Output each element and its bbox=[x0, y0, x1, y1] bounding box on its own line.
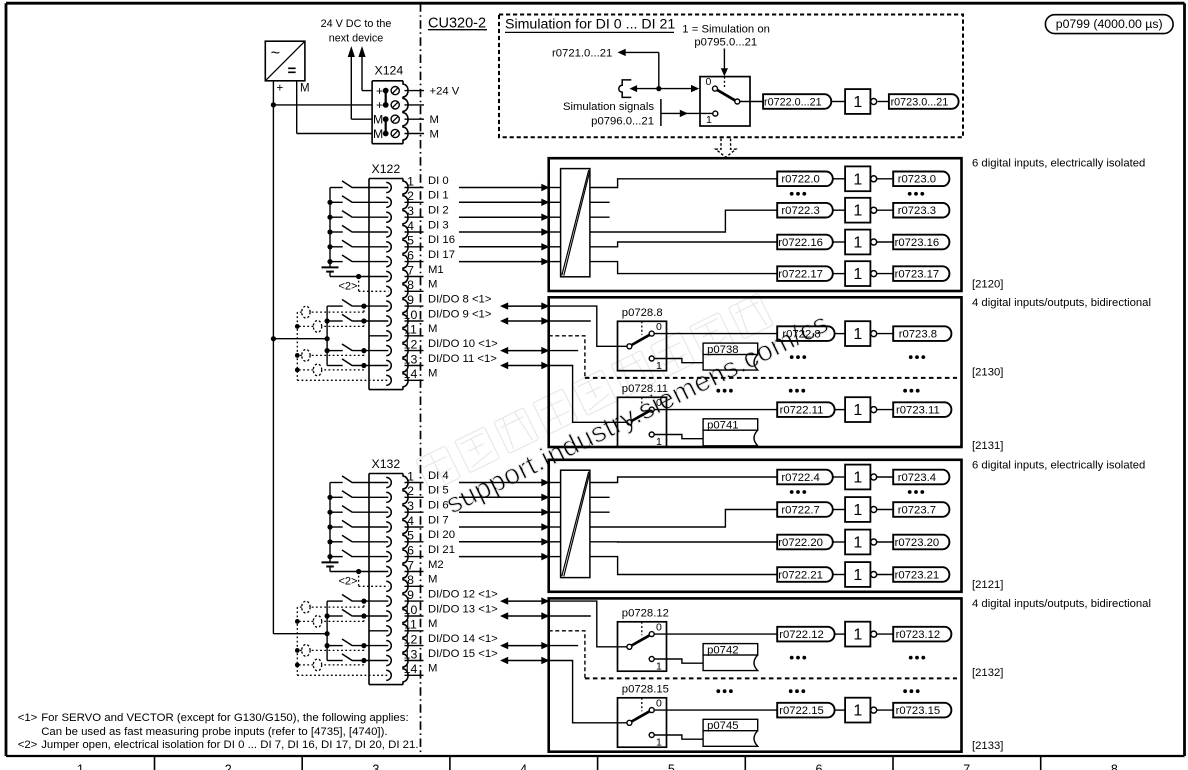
parameter box p0745 bbox=[703, 719, 758, 746]
label X122 pin 3 DI 2 bbox=[428, 205, 449, 217]
selector switch p0728.15 bbox=[618, 698, 667, 749]
wire B1 out6 bbox=[590, 262, 778, 274]
inverter gate p0728.8 bbox=[845, 321, 877, 346]
simulation selector switch p0795 bbox=[700, 76, 750, 126]
svg-text:1: 1 bbox=[853, 535, 862, 552]
wire B3 input 1 inside bbox=[549, 496, 561, 498]
wire gate to r0723.21 bbox=[877, 574, 894, 576]
svg-text:DI 4: DI 4 bbox=[428, 470, 449, 482]
svg-text:=: = bbox=[288, 63, 297, 80]
inverter gate B1 row1 bbox=[845, 198, 877, 223]
svg-text:p0796.0...21: p0796.0...21 bbox=[591, 116, 654, 128]
svg-text:r0722.3: r0722.3 bbox=[781, 205, 819, 217]
label X132 pin 3 DI 6 bbox=[428, 500, 449, 512]
svg-text:1: 1 bbox=[853, 266, 862, 283]
svg-text:1: 1 bbox=[853, 402, 862, 419]
power supply AC/DC converter bbox=[265, 41, 305, 81]
svg-text:7: 7 bbox=[963, 763, 970, 770]
ellipsis B4 row1 bbox=[790, 656, 925, 660]
wire r0722.16 to gate bbox=[833, 241, 845, 243]
X132 pin 3 contact and number bbox=[386, 499, 423, 517]
galvanic isolation barrier B3 bbox=[561, 470, 590, 577]
svg-text:1: 1 bbox=[853, 502, 862, 519]
wire r0722.8 to gate bbox=[835, 333, 846, 335]
svg-text:DI 5: DI 5 bbox=[428, 485, 449, 497]
wire X132 DI/DO pin12 bidirectional bbox=[500, 642, 550, 649]
label X122 pin 10 DI/DO 9 <1> bbox=[428, 308, 492, 320]
BICO output r0722.17 bbox=[777, 266, 833, 281]
wire gate to r0723.8 bbox=[877, 333, 894, 335]
label p0796.0...21 bbox=[591, 116, 654, 128]
junction X122 M1 node bbox=[356, 274, 361, 279]
svg-text:r0722.15: r0722.15 bbox=[779, 705, 824, 717]
X122 pin 12 contact and number bbox=[386, 337, 423, 355]
label X132 pin 8 M bbox=[428, 574, 437, 586]
svg-text:14: 14 bbox=[404, 367, 418, 381]
parameter pill p0799 (4000.00 us) bbox=[1045, 15, 1173, 34]
X132 pin 12 contact and number bbox=[386, 632, 423, 650]
wire B1 out1 bbox=[590, 179, 778, 188]
wire X132 DI pin3 to block bbox=[459, 509, 550, 516]
svg-text:r0722.0...21: r0722.0...21 bbox=[764, 96, 822, 108]
wire p0728.11 contact0 out bbox=[654, 409, 777, 411]
svg-text:DI 16: DI 16 bbox=[428, 234, 455, 246]
label X124 bbox=[375, 64, 404, 78]
wire X132 DI pin5 to block bbox=[459, 538, 550, 545]
wire p0728.11 contact1 out bbox=[654, 435, 703, 439]
svg-text:6 digital inputs, electrically: 6 digital inputs, electrically isolated bbox=[972, 158, 1145, 170]
X122 pin 9 contact and number bbox=[386, 293, 423, 311]
wire p0728.15 contact1 out bbox=[654, 735, 703, 739]
footnote <2> bbox=[18, 739, 419, 751]
label X122 pin 1 DI 0 bbox=[428, 175, 449, 187]
X124 pin 1 external line bbox=[405, 90, 425, 92]
svg-text:5: 5 bbox=[407, 234, 414, 248]
svg-text:[2131]: [2131] bbox=[972, 440, 1003, 452]
ellipsis B3 bbox=[790, 490, 924, 494]
svg-text:1: 1 bbox=[656, 360, 662, 372]
BICO output r0722.16 bbox=[777, 235, 833, 250]
footnote <1> bbox=[18, 712, 409, 738]
BICO output r0722.0...21 bbox=[763, 94, 831, 109]
svg-text:X122: X122 bbox=[372, 162, 401, 176]
indicator lamp X122 L1 bbox=[297, 306, 364, 318]
svg-text:6: 6 bbox=[407, 543, 414, 557]
svg-text:r0723.3: r0723.3 bbox=[898, 205, 936, 217]
wire B1 out2 stub bbox=[590, 201, 610, 203]
label X122 pin 9 DI/DO 8 <1> bbox=[428, 293, 492, 305]
label X122 pin 14 M bbox=[428, 368, 437, 380]
X124 pin 3 external line bbox=[405, 118, 425, 120]
BICO output r0723.21 bbox=[893, 567, 949, 582]
svg-text:10: 10 bbox=[404, 603, 418, 617]
switch contact X132 DI/DO d bbox=[327, 654, 388, 663]
svg-text:1: 1 bbox=[853, 326, 862, 343]
wire +24V rail feed bbox=[273, 104, 372, 106]
wire gate to r0723.3 bbox=[877, 209, 894, 211]
decorative watermark bbox=[416, 293, 834, 519]
svg-text:11: 11 bbox=[404, 323, 417, 337]
wire p0728.15 contact0 out bbox=[654, 709, 777, 711]
wire X122 DI pin6 to block bbox=[459, 258, 550, 265]
switch contact X132 pin5 bbox=[327, 535, 388, 544]
switch contact X122 DI/DO a bbox=[327, 300, 388, 309]
svg-text:M: M bbox=[430, 114, 439, 126]
switch contact X122 pin6 bbox=[327, 255, 388, 264]
X124 pin 2 external line bbox=[405, 104, 425, 106]
BICO output r0722.11 bbox=[777, 402, 834, 417]
label r0721.0...21 bbox=[552, 47, 612, 59]
svg-text:13: 13 bbox=[404, 647, 418, 661]
wire gate to r0723.7 bbox=[877, 509, 894, 511]
BICO output r0722.4 bbox=[777, 470, 833, 485]
X132 pin 1 contact and number bbox=[386, 469, 423, 487]
simulation dashed box bbox=[499, 15, 963, 138]
wire B4 in pin12 stub bbox=[549, 645, 579, 647]
svg-text:p0742: p0742 bbox=[707, 644, 738, 656]
label +24 V bbox=[430, 86, 460, 98]
wire B4 in pin13 bbox=[549, 661, 627, 723]
ellipsis B2 row1 bbox=[790, 355, 925, 359]
wire X132 switch rail bbox=[329, 483, 331, 563]
X122 pin 7 contact and number bbox=[386, 263, 423, 281]
svg-text:5: 5 bbox=[407, 529, 414, 543]
wire X132 DI/DO pin10 bidirectional bbox=[500, 612, 550, 619]
inverter gate B1 row3 bbox=[845, 261, 877, 286]
svg-text:p0799 (4000.00 µs): p0799 (4000.00 µs) bbox=[1056, 17, 1163, 31]
svg-text:CU320-2: CU320-2 bbox=[428, 15, 486, 31]
svg-text:9: 9 bbox=[407, 588, 414, 602]
parameter box p0738 bbox=[703, 343, 758, 370]
diagram ref 2133 bbox=[972, 740, 1003, 752]
BICO output r0723.3 bbox=[893, 203, 949, 218]
svg-text:For SERVO and VECTOR (except f: For SERVO and VECTOR (except for G130/G1… bbox=[41, 712, 408, 724]
wire B3 out5 bbox=[590, 541, 778, 543]
svg-text:1: 1 bbox=[706, 114, 712, 126]
svg-text:0: 0 bbox=[656, 622, 662, 634]
label <2> X132 bbox=[339, 576, 358, 588]
galvanic isolation barrier B1 bbox=[561, 169, 590, 277]
parameter box p0741 bbox=[703, 419, 758, 446]
svg-text:DI/DO 8 <1>: DI/DO 8 <1> bbox=[428, 293, 492, 305]
wire B4 separator dotted bbox=[585, 677, 957, 679]
X124 jumper link pins 3-4 bbox=[385, 119, 387, 133]
label X122 pin 12 DI/DO 10 <1> bbox=[428, 338, 498, 350]
BICO output r0722.7 bbox=[777, 502, 833, 517]
switch contact X122 pin2 bbox=[327, 196, 388, 205]
wire r0722.3 to gate bbox=[833, 209, 845, 211]
X132 pin 8 contact and number bbox=[386, 573, 423, 591]
wire X122 DI pin5 to block bbox=[459, 243, 550, 250]
BICO output r0723.12 bbox=[893, 627, 951, 642]
svg-text:r0723.15: r0723.15 bbox=[896, 705, 941, 717]
X122 pin 5 contact and number bbox=[386, 234, 423, 252]
svg-text:r0722.11: r0722.11 bbox=[780, 405, 824, 417]
wire r0722.20 to gate bbox=[833, 541, 845, 543]
label X132 pin 13 DI/DO 15 <1> bbox=[428, 648, 498, 660]
wire B1 input 0 inside bbox=[549, 187, 561, 189]
svg-text:1: 1 bbox=[77, 763, 84, 770]
wire X122 DI/DO pin10 bidirectional bbox=[500, 317, 550, 324]
svg-text:1: 1 bbox=[853, 235, 862, 252]
BICO output r0722.21 bbox=[777, 567, 833, 582]
X124 terminal M pin 3 with screw bbox=[373, 113, 399, 127]
inverter gate B1 row0 bbox=[845, 166, 877, 191]
BICO output r0722.3 bbox=[777, 203, 833, 218]
wire X132 DI/DO pin9 bidirectional bbox=[500, 597, 550, 604]
wire B1 out3 stub bbox=[590, 216, 610, 218]
diagram ref 2120 bbox=[972, 278, 1003, 290]
X132 pin 5 contact and number bbox=[386, 529, 423, 547]
svg-text:p0795.0...21: p0795.0...21 bbox=[694, 37, 757, 49]
wire B1 input 1 inside bbox=[549, 201, 561, 203]
svg-text:r0722.16: r0722.16 bbox=[778, 237, 823, 249]
svg-text:r0723.20: r0723.20 bbox=[895, 537, 940, 549]
block B2 frame bbox=[549, 297, 962, 447]
wire B4 M dashed bbox=[549, 631, 585, 679]
junction X122 rail nodes bbox=[325, 318, 330, 353]
wire X132 pin11 M stub bbox=[369, 630, 388, 632]
svg-text:DI 17: DI 17 bbox=[428, 249, 455, 261]
wire B1 out4 bbox=[590, 210, 778, 232]
svg-text:10: 10 bbox=[404, 308, 418, 322]
svg-text:p0728.12: p0728.12 bbox=[622, 608, 669, 620]
switch contact X132 DI/DO c bbox=[327, 639, 388, 648]
svg-text:3: 3 bbox=[407, 499, 414, 513]
label X122 pin 11 M bbox=[428, 323, 437, 335]
svg-text:DI/DO 12 <1>: DI/DO 12 <1> bbox=[428, 588, 498, 600]
svg-text:DI/DO 13 <1>: DI/DO 13 <1> bbox=[428, 603, 498, 615]
wire X122 DI/DO pin13 bidirectional bbox=[500, 362, 550, 369]
switch contact X132 pin4 bbox=[327, 520, 388, 529]
svg-text:3: 3 bbox=[407, 204, 414, 218]
switch contact X122 DI/DO c bbox=[327, 344, 388, 353]
svg-text:6: 6 bbox=[816, 763, 823, 770]
BICO output r0722.12 bbox=[777, 627, 834, 642]
label 1 = Simulation on bbox=[682, 23, 770, 35]
wire gate to r0723.20 bbox=[877, 541, 894, 543]
svg-text:M: M bbox=[428, 663, 437, 675]
simulation signals source bar bbox=[660, 99, 662, 126]
wire M lead bbox=[297, 81, 372, 134]
svg-text:DI/DO 11 <1>: DI/DO 11 <1> bbox=[428, 353, 497, 365]
wire B2 in pin12 stub bbox=[549, 350, 579, 352]
wire gate to r0723.0 bbox=[877, 178, 894, 180]
svg-text:Jumper open, electrical isolat: Jumper open, electrical isolation for DI… bbox=[41, 739, 418, 751]
svg-text:1: 1 bbox=[656, 660, 662, 672]
label X132 pin 4 DI 7 bbox=[428, 514, 449, 526]
svg-text:0: 0 bbox=[656, 698, 662, 710]
svg-text:M: M bbox=[428, 618, 437, 630]
svg-text:+: + bbox=[376, 98, 383, 112]
label X132 bbox=[372, 457, 401, 471]
svg-text:24 V DC to the: 24 V DC to the bbox=[321, 18, 392, 30]
wire B3 input 4 inside bbox=[549, 541, 561, 543]
inverter gate B3 row1 bbox=[845, 497, 877, 522]
svg-text:p0728.15: p0728.15 bbox=[622, 684, 669, 696]
wire r0722.15 to gate bbox=[835, 709, 846, 711]
wire X122 DI/DO feed bbox=[271, 336, 330, 341]
label X122 pin 4 DI 3 bbox=[428, 219, 449, 231]
BICO output r0722.0 bbox=[777, 172, 833, 187]
switch contact X132 pin6 bbox=[327, 550, 388, 559]
diagram ref 2132 bbox=[972, 667, 1003, 679]
X122 pin 11 contact and number bbox=[386, 323, 423, 341]
svg-text:4: 4 bbox=[520, 763, 527, 770]
wire B2 in pin9 bbox=[549, 306, 627, 346]
svg-text:1 = Simulation on: 1 = Simulation on bbox=[682, 23, 770, 35]
wire B4 in pin10 stub bbox=[549, 615, 591, 617]
svg-text:1: 1 bbox=[853, 567, 862, 584]
svg-text:r0722.4: r0722.4 bbox=[781, 472, 819, 484]
X122 pin 4 contact and number bbox=[386, 219, 423, 237]
wire B3 out2 stub bbox=[590, 496, 610, 498]
svg-text:4: 4 bbox=[407, 514, 414, 528]
block B3 frame bbox=[549, 460, 962, 592]
diagram ref 2130 bbox=[972, 367, 1003, 379]
label X132 pin 6 DI 21 bbox=[428, 544, 455, 556]
svg-text:DI 0: DI 0 bbox=[428, 175, 449, 187]
switch contact X122 DI/DO b bbox=[327, 314, 388, 323]
BICO output r0723.4 bbox=[893, 470, 949, 485]
BICO output r0722.8 bbox=[777, 326, 834, 341]
svg-text:r0721.0...21: r0721.0...21 bbox=[552, 47, 612, 59]
svg-text:1: 1 bbox=[407, 469, 414, 483]
svg-text:r0723.4: r0723.4 bbox=[898, 472, 936, 484]
svg-text:M: M bbox=[430, 129, 439, 141]
wire B2 M dashed bbox=[549, 336, 585, 378]
svg-text:r0722.12: r0722.12 bbox=[779, 629, 824, 641]
junction + node bbox=[271, 102, 276, 107]
wire r0722.11 to gate bbox=[835, 409, 846, 411]
svg-text:7: 7 bbox=[407, 263, 414, 277]
wire B3 out6 bbox=[590, 557, 778, 575]
BICO output r0723.0 bbox=[893, 172, 949, 187]
BICO output r0723.16 bbox=[893, 235, 949, 250]
connector-input symbol (simulation inject point) bbox=[619, 80, 631, 98]
X122 pin 2 contact and number bbox=[386, 189, 423, 207]
svg-text:p0728.11: p0728.11 bbox=[622, 383, 668, 395]
svg-text:p0741: p0741 bbox=[707, 420, 738, 432]
svg-text:<2>: <2> bbox=[18, 739, 38, 751]
wire gate to r0723.12 bbox=[877, 633, 894, 635]
svg-text:M2: M2 bbox=[428, 559, 444, 571]
wire to next device left (M) bbox=[348, 46, 372, 119]
label X132 pin 7 M2 bbox=[428, 559, 444, 571]
ellipsis B1 bbox=[790, 192, 924, 196]
wire gate to r0723.4 bbox=[877, 476, 894, 478]
svg-text:X124: X124 bbox=[375, 64, 404, 78]
label X132 pin 5 DI 20 bbox=[428, 529, 455, 541]
wire to r0721 with arrow bbox=[618, 49, 659, 89]
inverter gate p0728.11 bbox=[845, 397, 877, 422]
wire X122 M1 line bbox=[330, 276, 388, 278]
svg-text:2: 2 bbox=[225, 763, 232, 770]
X124 terminal M pin 4 with screw bbox=[373, 127, 399, 141]
wire X132 DI/DO supply rail bbox=[326, 601, 328, 660]
caption B3 bbox=[972, 459, 1145, 471]
wire +24V distribution rail bbox=[272, 105, 274, 634]
label + terminal bbox=[277, 82, 284, 94]
ellipsis B2 mid bbox=[716, 389, 919, 393]
parameter box p0742 bbox=[703, 644, 758, 671]
switch contact X132 pin1 bbox=[330, 476, 388, 483]
svg-text:r0723.8: r0723.8 bbox=[899, 329, 937, 341]
wire X122 DI pin1 to block bbox=[459, 184, 550, 191]
X122 pin 10 contact and number bbox=[386, 308, 423, 326]
BICO output r0722.20 bbox=[777, 535, 833, 550]
BICO output r0723.15 bbox=[893, 703, 951, 718]
inverter gate p0728.15 bbox=[845, 698, 877, 723]
indicator lamp X132 L2 bbox=[297, 616, 364, 628]
svg-text:1: 1 bbox=[853, 703, 862, 720]
wire B2 in pin13 bbox=[549, 366, 627, 423]
label Simulation signals bbox=[563, 101, 654, 113]
wire B4 in pin9 bbox=[549, 601, 627, 647]
wire B1 input 3 inside bbox=[549, 231, 561, 233]
label p0728.12 bbox=[622, 608, 669, 620]
svg-text:Can be used as fast measuring: Can be used as fast measuring probe inpu… bbox=[41, 726, 387, 738]
wire B3 input 0 inside bbox=[549, 482, 561, 484]
inverter gate p0728.12 bbox=[845, 622, 877, 647]
svg-text:1: 1 bbox=[853, 171, 862, 188]
svg-text:DI 7: DI 7 bbox=[428, 514, 449, 526]
block B1 frame bbox=[549, 158, 962, 291]
svg-text:+24 V: +24 V bbox=[430, 86, 460, 98]
wire r0722.7 to gate bbox=[833, 509, 845, 511]
X132 pin 7 contact and number bbox=[386, 558, 423, 576]
svg-text:14: 14 bbox=[404, 662, 418, 676]
switch contact X132 DI/DO b bbox=[327, 609, 388, 618]
wire B1 input 5 inside bbox=[549, 261, 561, 263]
connector X132 body bbox=[369, 474, 408, 685]
switch contact X132 DI/DO a bbox=[327, 595, 388, 604]
label <2> X122 bbox=[339, 281, 358, 293]
wire p0728.12 contact0 out bbox=[654, 633, 777, 635]
battery/ground source X132 bbox=[322, 562, 339, 571]
wire B3 out1 bbox=[590, 477, 778, 483]
indicator lamp X132 L1 bbox=[297, 601, 364, 613]
svg-text:+: + bbox=[376, 84, 383, 98]
diagram ref 2121 bbox=[972, 579, 1003, 591]
svg-text:4: 4 bbox=[407, 219, 414, 233]
svg-text:9: 9 bbox=[407, 293, 414, 307]
wire X132 M2 line bbox=[330, 571, 388, 573]
svg-text:<1>: <1> bbox=[18, 712, 38, 724]
svg-text:1: 1 bbox=[853, 203, 862, 220]
selector switch p0728.12 bbox=[618, 622, 667, 673]
wire X122 lamp return dashed (pin14) bbox=[297, 379, 388, 381]
battery/ground source X122 bbox=[322, 267, 339, 276]
X132 pin 10 contact and number bbox=[386, 603, 423, 621]
BICO output r0723.7 bbox=[893, 502, 949, 517]
wire r0722.21 to gate bbox=[833, 574, 845, 576]
X124 pin 4 external line bbox=[405, 133, 425, 135]
BICO output r0723.11 bbox=[893, 402, 951, 417]
junction X132 rail nodes bbox=[325, 613, 330, 648]
block B4 frame bbox=[549, 598, 962, 751]
switch contact X122 pin4 bbox=[327, 225, 388, 234]
svg-text:next device: next device bbox=[329, 32, 384, 44]
label X132 pin 12 DI/DO 14 <1> bbox=[428, 633, 498, 645]
wire X122 switch rail bbox=[329, 188, 331, 268]
svg-text:0: 0 bbox=[656, 321, 662, 333]
svg-text:7: 7 bbox=[407, 558, 414, 572]
X132 pin 4 contact and number bbox=[386, 514, 423, 532]
svg-text:2: 2 bbox=[407, 189, 414, 203]
selector switch p0728.8 bbox=[618, 321, 667, 372]
indicator lamp X132 L4 bbox=[297, 659, 364, 671]
